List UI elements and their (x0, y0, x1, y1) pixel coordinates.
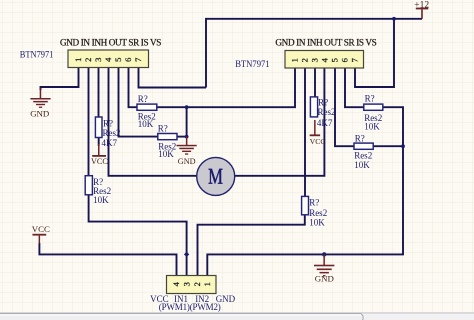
svg-text:10K: 10K (158, 149, 174, 159)
svg-text:3: 3 (309, 58, 319, 62)
svg-text:3: 3 (93, 58, 103, 62)
svg-text:GND: GND (30, 108, 49, 118)
svg-text:7: 7 (133, 58, 143, 62)
svg-text:GND: GND (315, 274, 334, 284)
svg-text:5: 5 (329, 58, 339, 62)
svg-text:R?: R? (318, 98, 328, 108)
svg-text:GND IN INH OUT SR IS VS: GND IN INH OUT SR IS VS (60, 37, 161, 47)
svg-text:R?: R? (158, 124, 168, 134)
svg-text:GND IN INH OUT SR IS VS: GND IN INH OUT SR IS VS (275, 37, 376, 47)
svg-text:Res2: Res2 (318, 107, 336, 117)
svg-text:+12: +12 (414, 0, 429, 10)
svg-text:1: 1 (289, 58, 299, 62)
svg-text:10K: 10K (93, 195, 109, 205)
svg-text:1: 1 (202, 282, 212, 286)
svg-text:R?: R? (309, 198, 319, 208)
svg-text:R?: R? (365, 94, 375, 104)
svg-text:10K: 10K (354, 160, 370, 170)
svg-text:M: M (208, 164, 223, 189)
svg-text:Res2: Res2 (103, 128, 121, 138)
svg-text:2: 2 (83, 58, 93, 62)
svg-text:2: 2 (192, 282, 202, 286)
svg-text:5: 5 (113, 58, 123, 62)
svg-text:R?: R? (355, 134, 365, 144)
svg-text:3: 3 (181, 282, 191, 286)
svg-text:BTN7971: BTN7971 (20, 50, 54, 60)
svg-text:6: 6 (123, 58, 133, 62)
svg-text:VCC: VCC (310, 137, 326, 146)
svg-text:10K: 10K (138, 119, 154, 129)
svg-text:BTN7971: BTN7971 (235, 59, 269, 69)
svg-text:10K: 10K (309, 218, 325, 228)
svg-text:VCC: VCC (32, 224, 50, 234)
svg-text:6: 6 (339, 58, 349, 62)
svg-text:4K7: 4K7 (317, 118, 333, 128)
svg-text:R?: R? (138, 94, 148, 104)
svg-text:Res2: Res2 (309, 208, 327, 218)
svg-text:2: 2 (299, 58, 309, 62)
svg-text:7: 7 (349, 58, 359, 62)
svg-text:10K: 10K (364, 122, 380, 132)
svg-text:R?: R? (103, 118, 113, 128)
svg-text:GND: GND (178, 157, 196, 166)
svg-text:1: 1 (73, 58, 83, 62)
svg-text:VCC: VCC (91, 157, 108, 166)
svg-text:4K7: 4K7 (102, 138, 118, 148)
svg-text:Res2: Res2 (354, 151, 372, 161)
svg-text:(PWM1)(PWM2): (PWM1)(PWM2) (159, 302, 221, 312)
